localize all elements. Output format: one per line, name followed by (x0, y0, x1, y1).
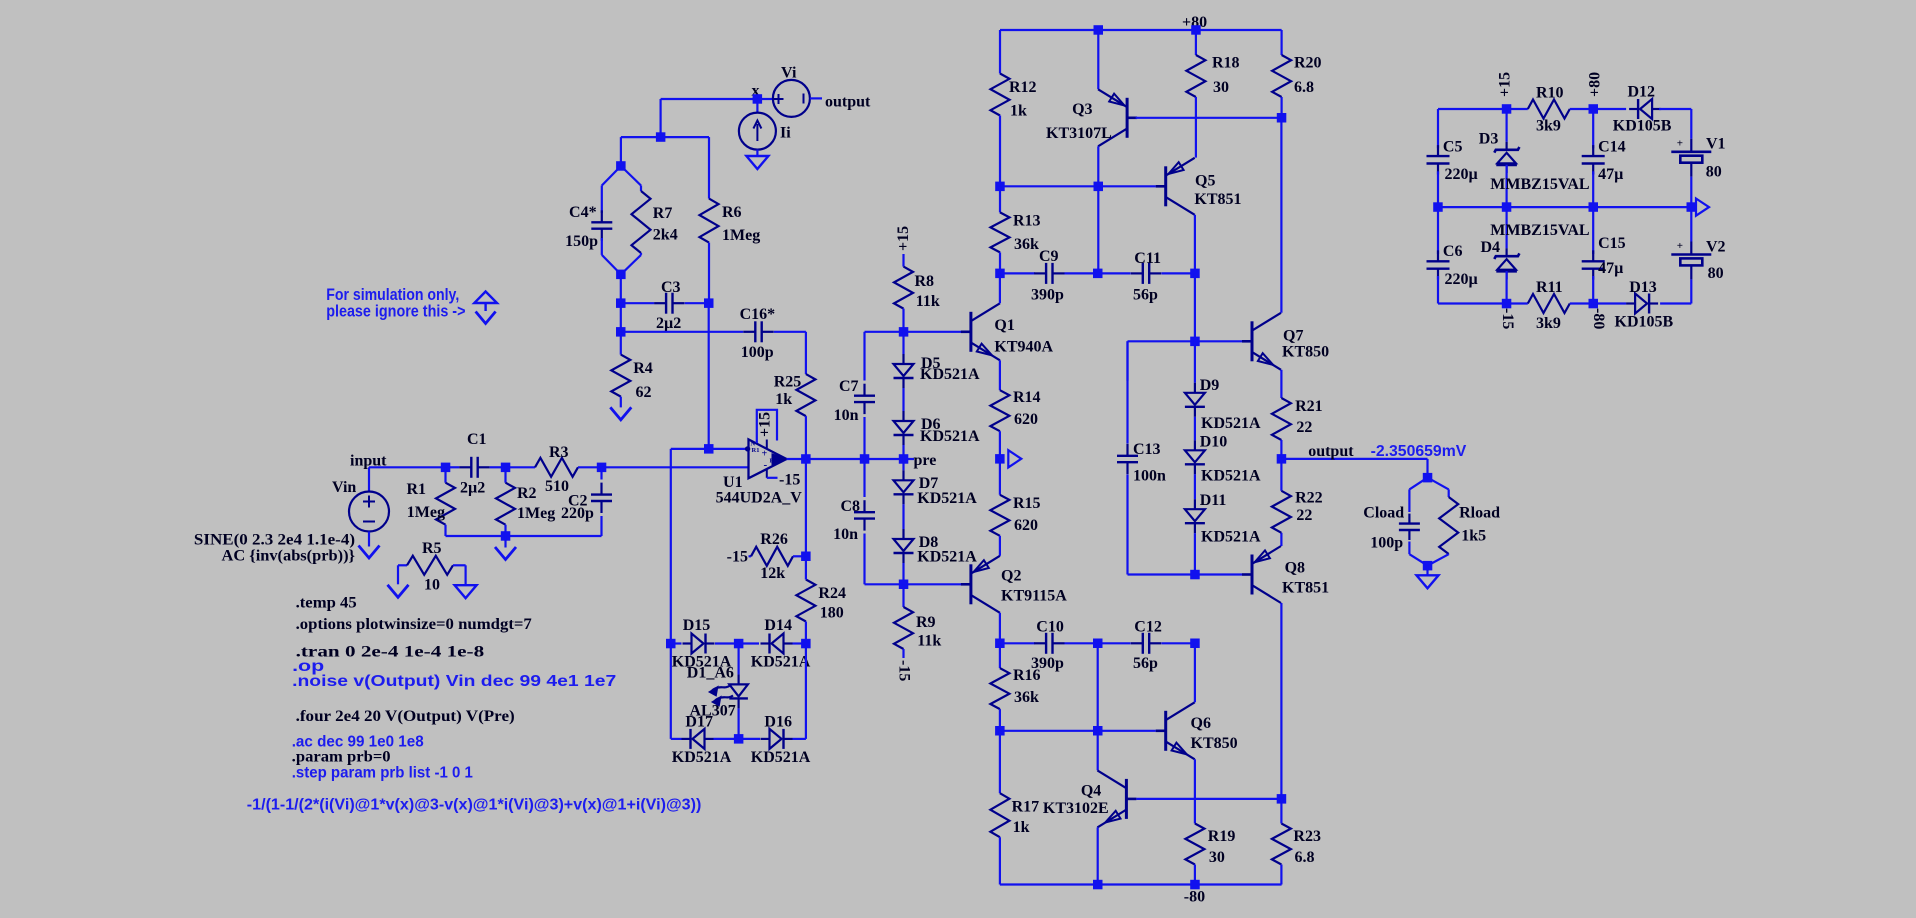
opamp output wire / pre net (787, 458, 915, 460)
svg-text:KD521A: KD521A (1201, 529, 1261, 546)
svg-text:1k: 1k (1013, 819, 1030, 836)
diode D6 (902, 411, 904, 421)
svg-text:R17: R17 (1012, 798, 1040, 815)
junction mid C5 (1433, 202, 1443, 212)
transistor Q8 (1251, 555, 1254, 595)
svg-text:62: 62 (636, 384, 652, 401)
svg-text:+80: +80 (1587, 72, 1604, 97)
ground arrow below R2 (504, 536, 506, 548)
diode D9 (1194, 341, 1196, 383)
wire to diode bridge (670, 449, 672, 644)
svg-text:C12: C12 (1134, 619, 1162, 636)
junction right rail (1277, 113, 1287, 123)
Q2 base row wire (865, 583, 962, 585)
junction C1 left (441, 463, 451, 473)
svg-text:620: 620 (1014, 411, 1038, 428)
junction out D6D7 (899, 454, 909, 464)
resistor R17 (999, 731, 1001, 793)
wire opamp inv input (671, 448, 749, 450)
diode D5 (902, 332, 904, 354)
svg-text:1k5: 1k5 (1461, 528, 1486, 545)
svg-text:D17: D17 (685, 714, 713, 731)
resistor R15 (999, 459, 1001, 495)
svg-text:C3: C3 (661, 279, 681, 296)
svg-text:Q6: Q6 (1191, 715, 1211, 732)
svg-text:R7: R7 (653, 205, 673, 222)
junction bridge left (666, 639, 676, 649)
junction R3 right (597, 463, 607, 473)
svg-text:12k: 12k (760, 565, 785, 582)
diode D10 (1194, 440, 1196, 450)
zener diode D4 (1505, 207, 1507, 248)
Q4 emitter wire (1097, 827, 1099, 884)
svg-text:+15: +15 (757, 412, 774, 437)
svg-text:KT850: KT850 (1191, 735, 1238, 752)
svg-text:10n: 10n (834, 407, 859, 424)
diode D16 (761, 738, 770, 740)
wire to opamp noninv (602, 466, 749, 468)
svg-text:Q2: Q2 (1001, 568, 1021, 585)
svg-text:150p: 150p (565, 233, 598, 250)
svg-text:-1/(1-1/(2*(i(Vi)@1*v(x)@3-v(x: -1/(1-1/(2*(i(Vi)@1*v(x)@3-v(x)@1*i(Vi)@… (247, 797, 702, 814)
svg-text:D4: D4 (1481, 239, 1501, 256)
svg-text:36k: 36k (1014, 689, 1039, 706)
svg-text:KD521A: KD521A (1201, 467, 1261, 484)
wire D9-D10 (1194, 417, 1196, 441)
U1 power +15 (766, 440, 768, 449)
junction C9 left (995, 269, 1005, 279)
svg-text:D16: D16 (764, 714, 792, 731)
svg-text:R16: R16 (1013, 667, 1041, 684)
transistor Q6 (1164, 711, 1167, 751)
svg-text:6.8: 6.8 (1295, 849, 1315, 866)
svg-text:.four 2e4 20 V(Output) V(Pre): .four 2e4 20 V(Output) V(Pre) (296, 708, 515, 725)
junction psu +80 (1589, 104, 1599, 114)
svg-text:2µ2: 2µ2 (656, 315, 681, 332)
Q2 collector wire (999, 613, 1001, 644)
svg-text:KD105B: KD105B (1615, 314, 1674, 331)
svg-text:Rload: Rload (1459, 505, 1500, 522)
svg-text:47µ: 47µ (1598, 260, 1623, 277)
capacitor C16* (621, 331, 743, 333)
arrow below R5 left (388, 585, 409, 598)
wire C3 to C16 row (620, 303, 622, 332)
svg-text:R10: R10 (1536, 85, 1564, 102)
svg-text:MMBZ15VAL: MMBZ15VAL (1490, 222, 1589, 239)
resistor R4 (620, 332, 622, 355)
voltage probe source Vi (757, 98, 773, 100)
svg-text:R15: R15 (1013, 495, 1041, 512)
junction C4R7 top (616, 161, 626, 171)
wire R6bottom to opamp junction (708, 303, 710, 449)
svg-text:47µ: 47µ (1598, 166, 1623, 183)
resistor R16 (999, 643, 1001, 668)
resistor R2 (504, 467, 506, 482)
svg-text:C15: C15 (1598, 235, 1626, 252)
voltage source Vin (368, 467, 370, 491)
diode D17 (705, 738, 714, 740)
svg-text:MMBZ15VAL: MMBZ15VAL (1490, 176, 1589, 193)
diode D15 (683, 642, 692, 644)
svg-text:R3: R3 (549, 444, 569, 461)
resistor R12 (999, 30, 1001, 74)
svg-text:D14: D14 (764, 617, 792, 634)
svg-text:10n: 10n (833, 526, 858, 543)
svg-text:R23: R23 (1293, 828, 1321, 845)
svg-text:Q7: Q7 (1283, 328, 1303, 345)
junction load bottom (1423, 561, 1433, 571)
svg-text:.param prb=0: .param prb=0 (292, 749, 391, 766)
svg-text:3k9: 3k9 (1536, 117, 1561, 134)
Q8 base row (1128, 573, 1243, 575)
battery V1 (1690, 109, 1692, 139)
diode D13 (1593, 302, 1626, 304)
resistor R23 (1280, 799, 1282, 824)
svg-text:+15: +15 (895, 226, 912, 251)
node input wire (369, 466, 446, 468)
svg-text:C1: C1 (467, 431, 487, 448)
capacitor C11 (1098, 272, 1131, 274)
junction bottom R2 (501, 531, 511, 541)
capacitor C5 (1437, 109, 1439, 148)
port arrow psu (1696, 199, 1709, 216)
junction D9 top (1190, 337, 1200, 347)
junction C11 right (1190, 269, 1200, 279)
resistor R22 (1280, 459, 1282, 491)
transistor Q3 PNP (1097, 30, 1099, 89)
svg-text:-15: -15 (1499, 308, 1516, 329)
wire C4R7bottom to C3 (620, 274, 622, 303)
wire R25col to R26 (805, 459, 807, 556)
resistor R3 (506, 466, 536, 468)
svg-text:220µ: 220µ (1445, 271, 1478, 288)
capacitor C8 (863, 459, 865, 497)
node x wire (661, 98, 758, 100)
svg-text:-80: -80 (1590, 308, 1607, 329)
svg-text:R12: R12 (1009, 79, 1037, 96)
svg-text:22: 22 (1296, 507, 1312, 524)
svg-text:3k9: 3k9 (1536, 315, 1561, 332)
junction x (753, 94, 763, 104)
svg-text:R8: R8 (915, 273, 935, 290)
Q6 base row (1000, 730, 1156, 732)
svg-text:input: input (350, 453, 387, 470)
Q5 base row (1000, 185, 1156, 187)
junction opamp inv (704, 444, 714, 454)
diode D12 (1593, 108, 1626, 110)
svg-text:output: output (825, 94, 871, 111)
svg-text:2µ2: 2µ2 (460, 480, 485, 497)
capacitor C1 (446, 466, 460, 468)
Q1 emitter wire (999, 360, 1001, 390)
current source Ii (756, 99, 758, 113)
capacitor C9 (1034, 272, 1046, 274)
svg-text:KD521A: KD521A (917, 549, 977, 566)
svg-text:KD521A: KD521A (751, 654, 811, 671)
svg-text:180: 180 (820, 605, 844, 622)
resistor R10 (1528, 100, 1570, 119)
svg-text:C9: C9 (1039, 248, 1059, 265)
svg-text:+15: +15 (1497, 72, 1514, 97)
svg-text:100n: 100n (1133, 468, 1166, 485)
svg-text:D10: D10 (1200, 433, 1228, 450)
junction C4R7 bottom (616, 270, 626, 280)
Q3 collector wire (1097, 146, 1099, 186)
svg-text:Q4: Q4 (1081, 783, 1101, 800)
svg-text:36k: 36k (1014, 236, 1039, 253)
wire D11 to Q8 row (1194, 533, 1196, 574)
svg-text:R2: R2 (517, 485, 537, 502)
svg-text:R18: R18 (1212, 55, 1240, 72)
LED D1_A6 (737, 644, 739, 675)
svg-text:620: 620 (1014, 517, 1038, 534)
diode D11 (1194, 499, 1196, 509)
diode bridge row2 wire left (670, 644, 672, 739)
Q8 collector wire (1280, 533, 1282, 546)
junction C16 left (616, 327, 626, 337)
battery V2 (1690, 207, 1692, 241)
resistor R18 (1195, 30, 1197, 55)
junction out R25 (801, 454, 811, 464)
wire D5-D6 (902, 388, 904, 411)
bidirectional port symbol (474, 292, 497, 304)
svg-text:R19: R19 (1208, 828, 1236, 845)
svg-text:C7: C7 (839, 378, 859, 395)
C13 top row wire (1128, 340, 1243, 342)
svg-text:Q5: Q5 (1195, 173, 1215, 190)
svg-text:R9: R9 (916, 614, 936, 631)
junction Q4 base R23 (1277, 794, 1287, 804)
resistor R24 (796, 580, 815, 622)
Q6 emitter wire to R19 (1194, 759, 1196, 823)
capacitor C7 (863, 332, 865, 381)
svg-text:R1: R1 (406, 481, 426, 498)
wire D17-D16 (714, 738, 761, 740)
svg-text:D15: D15 (683, 617, 711, 634)
svg-text:KT9115A: KT9115A (1001, 588, 1067, 605)
svg-text:C5: C5 (1443, 139, 1463, 156)
svg-text:-2.350659mV: -2.350659mV (1371, 443, 1467, 460)
junction psu +15 (1502, 104, 1512, 114)
svg-text:-15: -15 (896, 660, 913, 681)
svg-text:C8: C8 (840, 498, 860, 515)
svg-text:KT851: KT851 (1282, 580, 1329, 597)
svg-text:KT3107L: KT3107L (1046, 125, 1112, 142)
resistor R25 (805, 332, 807, 374)
svg-text:KT850: KT850 (1282, 344, 1329, 361)
diode D7 (902, 459, 904, 470)
bottom wire R1-C2 (446, 535, 602, 537)
op-amp U1 (749, 439, 787, 478)
resistor R14 (990, 390, 1009, 431)
psu mid rail (1438, 206, 1691, 208)
junction mid C14 (1589, 202, 1599, 212)
svg-text:Q8: Q8 (1285, 560, 1305, 577)
svg-text:KD521A: KD521A (920, 428, 980, 445)
svg-text:-15: -15 (779, 472, 800, 489)
capacitor C15 (1592, 207, 1594, 254)
svg-text:C6: C6 (1443, 243, 1463, 260)
svg-text:R20: R20 (1294, 55, 1322, 72)
junction output (1277, 454, 1287, 464)
junction C10C12 mid (1093, 639, 1103, 649)
junction mid D3 (1502, 202, 1512, 212)
svg-text:V1: V1 (1706, 136, 1726, 153)
junction C3 right (704, 298, 714, 308)
Vin bottom arrow (368, 532, 370, 547)
resistor R20 (1280, 30, 1282, 55)
svg-text:D12: D12 (1628, 84, 1656, 101)
svg-text:11k: 11k (916, 293, 940, 310)
svg-text:KT851: KT851 (1194, 191, 1241, 208)
svg-text:R21: R21 (1295, 398, 1323, 415)
transistor Q4 mirrored (1097, 731, 1099, 771)
svg-text:C4*: C4* (569, 204, 597, 221)
wire C11 junction to D9 row (1194, 273, 1196, 341)
resistor R19 (1185, 824, 1204, 865)
svg-text:output: output (1308, 443, 1354, 460)
wire D15-D14 (715, 642, 759, 644)
svg-text:R26: R26 (760, 531, 788, 548)
junction C12 right (1190, 639, 1200, 649)
capacitor C4* branch (602, 166, 621, 186)
junction Q8 base (1190, 570, 1200, 580)
svg-text:R4: R4 (633, 360, 653, 377)
Q5 collector wire (1194, 215, 1196, 274)
Q1 collector wire (999, 273, 1001, 303)
svg-text:1Meg: 1Meg (517, 505, 555, 522)
svg-text:C14: C14 (1598, 139, 1626, 156)
capacitor C14 (1592, 109, 1594, 148)
+80 rail (1000, 29, 1282, 31)
junction R8 bottom (899, 327, 909, 337)
svg-text:390p: 390p (1031, 287, 1064, 304)
svg-text:Vin: Vin (332, 479, 356, 496)
svg-text:100p: 100p (1370, 535, 1403, 552)
capacitor C3 (621, 302, 654, 304)
svg-text:+: + (762, 449, 768, 460)
junction rail R18 (1191, 25, 1201, 35)
svg-text:.noise v(Output) Vin dec 99 4e: .noise v(Output) Vin dec 99 4e1 1e7 (292, 673, 616, 690)
junction Q4 col (1093, 726, 1103, 736)
capacitor Cload branch (1409, 478, 1427, 490)
svg-text:C13: C13 (1133, 441, 1161, 458)
svg-text:.step param prb list -1 0 1: .step param prb list -1 0 1 (292, 765, 473, 782)
svg-text:R25: R25 (774, 374, 802, 391)
svg-text:SINE(0 2.3 2e4 1.1e-4): SINE(0 2.3 2e4 1.1e-4) (194, 532, 355, 549)
diode D8 (902, 529, 904, 539)
wire Q3row to C9 row (1097, 186, 1099, 273)
junction bridge right (801, 639, 811, 649)
Q3 base wire to right rail (1136, 117, 1282, 119)
svg-text:KD521A: KD521A (1201, 415, 1261, 432)
svg-text:KD521A: KD521A (917, 490, 977, 507)
wire D8 to Q2 row (902, 563, 904, 584)
svg-text:pre: pre (914, 452, 937, 469)
svg-text:100p: 100p (741, 344, 774, 361)
svg-text:1k: 1k (1010, 103, 1027, 120)
junction Q3 row (1094, 182, 1104, 192)
capacitor C10 (1034, 642, 1046, 644)
Q1 base row wire (865, 331, 962, 333)
svg-text:220p: 220p (561, 505, 594, 522)
svg-text:C10: C10 (1036, 619, 1064, 636)
junction bridge mid bottom (734, 734, 744, 744)
svg-text:C16*: C16* (740, 306, 776, 323)
svg-text:30: 30 (1209, 849, 1225, 866)
resistor R9 (902, 584, 904, 607)
resistor R1 (444, 467, 446, 482)
svg-text:.options plotwinsize=0 numdgt=: .options plotwinsize=0 numdgt=7 (296, 616, 532, 633)
wire mid col C10C12 to Q6row (1097, 643, 1099, 731)
wire D6 to pre (902, 445, 904, 459)
svg-text:R1: R1 (752, 447, 760, 454)
resistor R11 (1528, 294, 1570, 313)
resistor R8 (902, 254, 904, 267)
svg-text:V2: V2 (1706, 239, 1726, 256)
junction rail Q3 (1094, 25, 1104, 35)
svg-text:D3: D3 (1479, 131, 1499, 148)
transistor Q5 (1164, 166, 1167, 206)
svg-text:R24: R24 (818, 585, 846, 602)
svg-text:KD521A: KD521A (672, 749, 732, 766)
capacitor C13 (1126, 341, 1128, 380)
junction C3 left (616, 298, 626, 308)
svg-text:KT940A: KT940A (994, 339, 1053, 356)
junction D8 bottom (899, 580, 909, 590)
output wire (1281, 458, 1427, 460)
junction out C7 (860, 454, 870, 464)
svg-text:Cload: Cload (1363, 505, 1404, 522)
junction psu -80 (1589, 299, 1599, 309)
junction feedback top (656, 132, 666, 142)
psu bottom rail (1438, 302, 1528, 304)
svg-text:22: 22 (1296, 419, 1312, 436)
svg-text:56p: 56p (1133, 287, 1158, 304)
svg-text:510: 510 (545, 478, 569, 495)
svg-text:30: 30 (1213, 79, 1229, 96)
resistor R5 (398, 564, 407, 566)
junction R16 R17 (995, 726, 1005, 736)
svg-text:D11: D11 (1200, 492, 1227, 509)
ground below Ii (756, 150, 758, 156)
transistor Q7 (1251, 321, 1254, 361)
svg-text:R14: R14 (1013, 389, 1041, 406)
Q6 collector wire (1194, 643, 1196, 702)
svg-text:1k: 1k (775, 391, 792, 408)
svg-text:KD521A: KD521A (920, 366, 980, 383)
svg-text:Q3: Q3 (1072, 101, 1092, 118)
junction load top (1423, 473, 1433, 483)
capacitor C2 (600, 467, 602, 479)
svg-text:KT3102E: KT3102E (1043, 800, 1109, 817)
transistor Q1 (969, 312, 972, 352)
svg-text:1Meg: 1Meg (722, 227, 760, 244)
svg-text:Q1: Q1 (994, 317, 1014, 334)
junction rail R19 (1190, 880, 1200, 890)
U1 power -15 (766, 469, 768, 478)
svg-text:11k: 11k (917, 633, 941, 650)
svg-text:.temp 45: .temp 45 (296, 595, 357, 612)
-80 rail (1000, 883, 1282, 885)
svg-text:80: 80 (1708, 265, 1724, 282)
wire bridge right down (805, 644, 807, 739)
svg-text:Ii: Ii (780, 125, 791, 142)
svg-text:R6: R6 (722, 204, 742, 221)
svg-text:R22: R22 (1295, 490, 1323, 507)
junction C10 left (995, 639, 1005, 649)
svg-text:1Meg: 1Meg (407, 504, 445, 521)
